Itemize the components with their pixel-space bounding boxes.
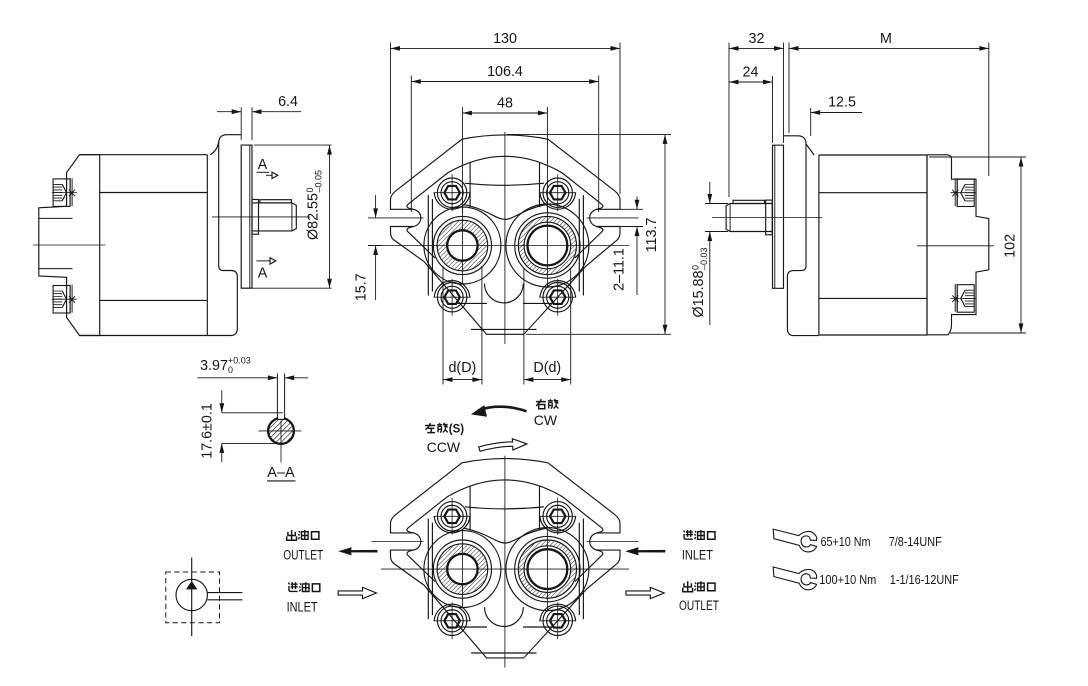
dimension 15.7 — [354, 195, 383, 301]
dimension 106.4 — [411, 64, 598, 212]
CW rotation arrow — [471, 405, 527, 417]
dimension 130 — [391, 31, 621, 194]
svg-text:6.4: 6.4 — [278, 94, 298, 110]
svg-text:Ø82.55: Ø82.55 — [306, 193, 322, 240]
mounting flange plate (right view) — [773, 145, 784, 288]
dimension 24 — [729, 65, 773, 144]
outlet arrow right (open) — [626, 587, 664, 598]
svg-text:INLET: INLET — [682, 547, 713, 562]
dimension 3.97 — [197, 356, 308, 381]
keyway slot — [277, 374, 284, 420]
shaft section circle — [258, 416, 301, 462]
torque text 2 — [819, 572, 959, 587]
dimension D(d) — [524, 268, 571, 385]
rear cover (right view) — [917, 155, 994, 335]
svg-text:1-1/16-12UNF: 1-1/16-12UNF — [890, 572, 959, 587]
dimension 102 — [929, 157, 1026, 333]
shaft (right view) — [712, 200, 822, 235]
pump body (right view) — [819, 155, 927, 335]
dimension diameter 15.88 — [691, 182, 729, 325]
pilot lines — [207, 593, 242, 600]
pump front view (bottom) — [372, 456, 639, 668]
label A-A — [267, 465, 296, 481]
dimension 2-11.1 — [612, 197, 644, 296]
svg-text:D(d): D(d) — [533, 360, 561, 376]
svg-text:102: 102 — [1003, 234, 1019, 258]
svg-text:CW: CW — [534, 412, 558, 428]
svg-text:INLET: INLET — [287, 599, 318, 614]
stud bolt upper left — [52, 178, 77, 206]
section mark A lower — [257, 258, 276, 282]
label CCW chinese — [425, 423, 464, 436]
svg-text:0: 0 — [228, 365, 233, 375]
svg-text:OUTLET: OUTLET — [283, 547, 323, 562]
label OUTLET left — [283, 547, 323, 562]
label inlet right chinese — [684, 530, 716, 539]
shaft (left view) — [212, 200, 310, 235]
drive line — [191, 558, 193, 637]
pump triangle — [186, 581, 197, 590]
dimension 32 — [729, 31, 784, 197]
dimension 12.5 — [811, 95, 862, 137]
svg-text:(S): (S) — [449, 424, 465, 436]
pump body (left view) — [80, 155, 208, 336]
svg-text:113.7: 113.7 — [644, 218, 660, 253]
svg-text:2–11.1: 2–11.1 — [612, 248, 628, 291]
svg-text:CCW: CCW — [427, 439, 461, 455]
section mark A upper — [257, 157, 278, 179]
label outlet right chinese — [683, 581, 715, 591]
inlet arrow right (solid) — [625, 547, 665, 555]
front cover (right view) — [784, 136, 819, 336]
torque text 1 — [821, 534, 942, 549]
label OUTLET right — [679, 598, 719, 613]
stud bolt lower left — [52, 285, 77, 313]
stud bolt upper right — [951, 178, 976, 206]
label inlet left chinese — [288, 582, 320, 591]
symbol frame (dashed) — [166, 572, 220, 623]
svg-text:+0.03: +0.03 — [228, 356, 251, 366]
rear cover block — [33, 155, 106, 336]
svg-text:M: M — [880, 31, 892, 47]
dimension 6.4 — [217, 94, 301, 140]
dimension diameter 82.55 — [241, 145, 332, 288]
dimension 113.7 — [507, 134, 671, 334]
stud bolt lower right — [951, 284, 976, 312]
label CW — [534, 412, 558, 428]
svg-text:7/8-14UNF: 7/8-14UNF — [889, 534, 942, 549]
label CCW — [427, 439, 461, 455]
label outlet left chinese — [287, 530, 319, 540]
svg-text:Ø15.88: Ø15.88 — [691, 271, 707, 318]
inlet arrow left (open) — [338, 587, 376, 598]
label INLET left — [287, 599, 318, 614]
dimension d(D) — [443, 266, 482, 385]
svg-text:17.6±0.1: 17.6±0.1 — [200, 403, 216, 459]
dimension M — [789, 31, 989, 176]
CCW rotation arrow — [479, 439, 527, 452]
svg-text:12.5: 12.5 — [828, 95, 856, 111]
wrench 2 — [773, 567, 817, 590]
svg-text:24: 24 — [743, 65, 759, 81]
pump circle — [176, 579, 207, 610]
svg-text:3.97: 3.97 — [200, 358, 228, 374]
svg-text:A: A — [258, 266, 268, 282]
svg-text:100+10 Nm: 100+10 Nm — [819, 572, 876, 587]
svg-text:OUTLET: OUTLET — [679, 598, 719, 613]
dimension 17.6 — [200, 390, 288, 462]
svg-text:–0.03: –0.03 — [699, 247, 709, 270]
label CW chinese — [536, 399, 559, 409]
svg-text:130: 130 — [493, 31, 517, 47]
dimension 48 — [462, 96, 547, 214]
svg-text:106.4: 106.4 — [487, 64, 523, 80]
svg-text:15.7: 15.7 — [354, 273, 370, 301]
svg-text:–0.05: –0.05 — [314, 170, 324, 193]
svg-text:32: 32 — [749, 31, 765, 47]
svg-text:A: A — [258, 157, 268, 173]
pump front view (top) — [372, 132, 639, 344]
label INLET right — [682, 547, 713, 562]
front cover (left view) — [207, 135, 241, 336]
svg-text:A–A: A–A — [267, 465, 295, 481]
mounting flange plate (left view) — [241, 145, 252, 288]
wrench 1 — [773, 529, 817, 552]
outlet arrow left (solid) — [338, 547, 377, 555]
svg-text:d(D): d(D) — [448, 360, 476, 376]
svg-text:65+10 Nm: 65+10 Nm — [821, 534, 871, 549]
svg-text:48: 48 — [497, 96, 513, 112]
